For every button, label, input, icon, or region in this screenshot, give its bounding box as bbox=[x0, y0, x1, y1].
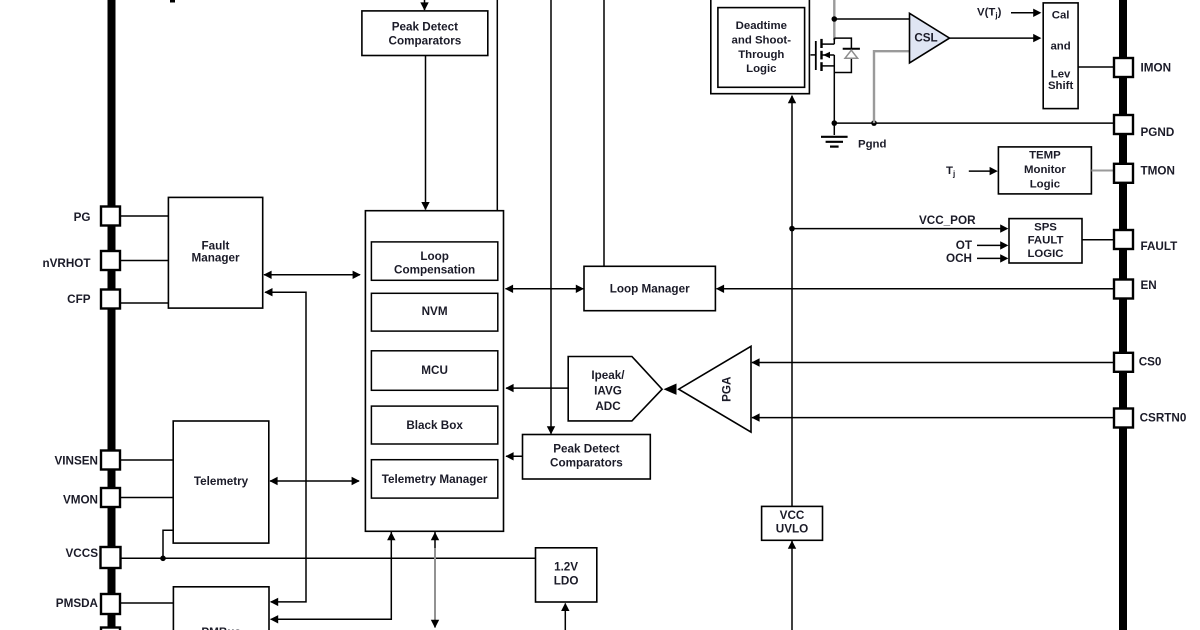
label CFP bbox=[67, 293, 91, 306]
block Ipeak IAVG ADC bbox=[568, 357, 662, 421]
wire CSL to Cal block bbox=[950, 34, 1042, 42]
amplifier PGA bbox=[679, 346, 751, 432]
wire gray sense to CSL bbox=[874, 51, 910, 123]
svg-text:OCH: OCH bbox=[946, 252, 972, 265]
block PMBus interface (cut off) bbox=[173, 587, 269, 630]
junction VCC_POR bbox=[789, 226, 795, 232]
pin CFP bbox=[101, 290, 120, 309]
wire vertical x604 from top to Loop Manager bbox=[603, 0, 605, 266]
pin VMON bbox=[101, 488, 120, 507]
block Peak Detect Comparators (top) bbox=[362, 11, 488, 56]
label PMSDA bbox=[56, 597, 99, 610]
svg-text:Pgnd: Pgnd bbox=[858, 139, 887, 151]
junction VCCS branch bbox=[160, 556, 166, 562]
svg-text:VCCS: VCCS bbox=[66, 547, 99, 560]
wire Telemetry to container (bidirectional) bbox=[269, 477, 359, 485]
label Pgnd bbox=[858, 139, 887, 151]
left chip boundary bus bbox=[108, 0, 116, 630]
junction sense-Pgnd bbox=[871, 120, 877, 126]
pin VCCS bbox=[101, 547, 121, 568]
wire PMSDA bbox=[116, 602, 174, 604]
svg-text:Telemetry Manager: Telemetry Manager bbox=[382, 473, 488, 486]
pin PGND bbox=[1114, 115, 1133, 134]
svg-text:Through: Through bbox=[738, 49, 784, 61]
svg-text:VCC_POR: VCC_POR bbox=[919, 214, 976, 227]
label nVRHOT bbox=[42, 257, 91, 270]
label VMON bbox=[63, 494, 98, 507]
cut-off mark top left bbox=[170, 0, 175, 3]
svg-text:FAULT: FAULT bbox=[1141, 240, 1179, 253]
label V(Tj) bbox=[977, 7, 1002, 20]
block 1.2V LDO bbox=[536, 548, 597, 602]
wire VCCS branch to Telemetry bbox=[163, 530, 173, 558]
svg-text:nVRHOT: nVRHOT bbox=[42, 257, 91, 270]
pin TMON bbox=[1114, 164, 1133, 183]
pin IMON bbox=[1114, 58, 1133, 77]
label OT bbox=[956, 239, 973, 252]
label TMON bbox=[1141, 165, 1175, 178]
label EN bbox=[1141, 279, 1157, 292]
pin PMSDA bbox=[101, 594, 120, 614]
wire Peak Detect to MCU container bbox=[421, 56, 429, 211]
block Cal and Lev Shift bbox=[1043, 3, 1078, 109]
wire Cal block to IMON bbox=[1078, 66, 1114, 68]
wire PG bbox=[116, 215, 169, 217]
block MCU container bbox=[365, 211, 503, 532]
block SPS FAULT LOGIC bbox=[1009, 219, 1082, 263]
wire container to Peak Detect Comparators 2 bbox=[505, 452, 522, 460]
wire vertical x497 from top to container bbox=[496, 0, 498, 211]
svg-text:ADC: ADC bbox=[595, 400, 621, 413]
wire gray VIN to drain bbox=[833, 0, 835, 40]
wire into 1.2V LDO from bottom bbox=[561, 603, 569, 630]
svg-text:VINSEN: VINSEN bbox=[54, 454, 98, 467]
svg-text:LDO: LDO bbox=[554, 575, 579, 588]
block Loop Compensation bbox=[371, 242, 497, 280]
block NVM bbox=[371, 293, 497, 331]
svg-text:Black Box: Black Box bbox=[406, 419, 463, 432]
block Peak Detect Comparators 2 bbox=[523, 435, 651, 480]
amplifier CSL bbox=[910, 13, 950, 63]
wire container bottom to PMBus bbox=[270, 532, 396, 624]
wire Tj to TEMP Monitor bbox=[969, 167, 998, 175]
block Telemetry Manager bbox=[371, 460, 497, 498]
junction drain node bbox=[832, 16, 838, 22]
svg-text:Comparators: Comparators bbox=[550, 456, 623, 469]
label VINSEN bbox=[54, 454, 98, 467]
wire V(Tj) to Cal block bbox=[1011, 9, 1041, 17]
svg-text:PMSDA: PMSDA bbox=[56, 597, 99, 610]
svg-text:and: and bbox=[1050, 41, 1070, 53]
svg-text:LOGIC: LOGIC bbox=[1027, 248, 1063, 260]
diode body diode bbox=[843, 49, 860, 59]
label PG bbox=[74, 211, 91, 224]
wire ADC to MCU bbox=[505, 384, 568, 392]
svg-text:V(Tj): V(Tj) bbox=[977, 7, 1002, 20]
svg-text:CS0: CS0 bbox=[1139, 356, 1162, 369]
wire CSRTN0 pin to PGA bbox=[751, 413, 1114, 421]
svg-text:Monitor: Monitor bbox=[1024, 164, 1066, 176]
wire EN pin to Loop Manager bbox=[716, 285, 1114, 293]
svg-text:SPS: SPS bbox=[1034, 221, 1057, 233]
svg-text:PGA: PGA bbox=[721, 376, 734, 402]
svg-text:PG: PG bbox=[74, 211, 91, 224]
svg-text:Comparators: Comparators bbox=[389, 34, 462, 47]
wire Pgnd rail to PGND pin bbox=[834, 122, 1114, 124]
pin CSRTN0 bbox=[1114, 409, 1133, 428]
label IMON bbox=[1141, 62, 1172, 75]
pin PG bbox=[101, 207, 120, 226]
svg-text:VMON: VMON bbox=[63, 494, 98, 507]
block VCC UVLO bbox=[762, 506, 823, 540]
block TEMP Monitor Logic bbox=[998, 147, 1091, 194]
svg-text:and Shoot-: and Shoot- bbox=[732, 35, 792, 47]
wire TEMP Monitor to TMON gray bbox=[1091, 170, 1114, 172]
svg-text:Deadtime: Deadtime bbox=[736, 20, 787, 32]
svg-text:Cal: Cal bbox=[1052, 10, 1070, 22]
label Tj bbox=[946, 165, 955, 178]
svg-text:PGND: PGND bbox=[1141, 126, 1175, 139]
svg-text:Logic: Logic bbox=[1030, 179, 1060, 191]
svg-text:PMBus: PMBus bbox=[201, 626, 241, 630]
svg-text:Lev: Lev bbox=[1051, 68, 1071, 80]
svg-text:TEMP: TEMP bbox=[1029, 149, 1061, 161]
pin FAULT bbox=[1114, 230, 1133, 249]
wire VCC_POR to SPS bbox=[792, 224, 1008, 232]
wire OT to SPS bbox=[977, 241, 1008, 249]
wire CS0 pin to PGA bbox=[751, 358, 1114, 366]
block Loop Manager bbox=[584, 266, 715, 310]
block Telemetry bbox=[173, 421, 269, 543]
svg-text:Manager: Manager bbox=[191, 252, 240, 265]
ground Pgnd symbol bbox=[821, 123, 848, 147]
label FAULT bbox=[1141, 240, 1179, 253]
label VCC_POR bbox=[919, 214, 976, 227]
label CSRTN0 bbox=[1140, 411, 1187, 424]
wire top arrow into Peak Detect Comparators bbox=[420, 0, 428, 11]
label VCCS bbox=[66, 547, 99, 560]
pin EN bbox=[1114, 280, 1133, 299]
wire VCCS to 1.2V LDO bbox=[116, 557, 536, 559]
svg-text:IMON: IMON bbox=[1141, 62, 1172, 75]
block Deadtime cut box above bbox=[723, 0, 796, 3]
svg-text:Tj: Tj bbox=[946, 165, 955, 178]
block Fault Manager bbox=[168, 197, 262, 308]
wire container to Loop Manager (bidirectional) bbox=[505, 285, 584, 293]
label CS0 bbox=[1139, 356, 1162, 369]
block Black Box bbox=[371, 406, 497, 444]
pin nVRHOT bbox=[101, 251, 120, 270]
block Deadtime and Shoot-Through Logic bbox=[718, 8, 805, 88]
wire SPS to FAULT pin bbox=[1082, 239, 1114, 241]
wire Fault Manager to PMBus bbox=[264, 288, 306, 606]
transistor power MOSFET bbox=[811, 38, 852, 123]
right chip boundary bus bbox=[1119, 0, 1127, 630]
wire VCC into UVLO from bottom bbox=[788, 541, 796, 630]
svg-text:Peak Detect: Peak Detect bbox=[553, 443, 619, 456]
wire CFP bbox=[116, 302, 169, 304]
svg-text:Loop Manager: Loop Manager bbox=[610, 283, 690, 296]
svg-text:OT: OT bbox=[956, 239, 973, 252]
label PGND bbox=[1141, 126, 1175, 139]
svg-text:UVLO: UVLO bbox=[776, 522, 808, 535]
block Deadtime outer box bbox=[711, 0, 810, 94]
svg-text:Shift: Shift bbox=[1048, 80, 1074, 92]
wire VCC UVLO up to Deadtime bbox=[788, 95, 796, 506]
svg-text:TMON: TMON bbox=[1141, 165, 1175, 178]
svg-text:NVM: NVM bbox=[422, 305, 448, 318]
pin VINSEN bbox=[101, 451, 120, 470]
svg-text:CFP: CFP bbox=[67, 293, 91, 306]
wire VINSEN bbox=[116, 459, 174, 461]
wire container bottom bidirectional gray bbox=[431, 532, 439, 628]
pin CS0 bbox=[1114, 353, 1133, 372]
svg-text:1.2V: 1.2V bbox=[554, 561, 578, 574]
svg-text:FAULT: FAULT bbox=[1028, 235, 1064, 247]
wire PGA to ADC bbox=[664, 384, 677, 395]
svg-text:CSRTN0: CSRTN0 bbox=[1140, 411, 1187, 424]
wire OCH to SPS bbox=[977, 254, 1008, 262]
svg-text:CSL: CSL bbox=[914, 32, 937, 45]
wire drain node to CSL bbox=[834, 18, 909, 20]
svg-text:Compensation: Compensation bbox=[394, 263, 475, 276]
svg-text:Loop: Loop bbox=[420, 250, 449, 263]
wire Fault Manager to container (bidirectional) bbox=[263, 271, 360, 279]
block MCU bbox=[371, 351, 497, 391]
svg-text:Logic: Logic bbox=[746, 63, 776, 75]
svg-text:Telemetry: Telemetry bbox=[194, 475, 249, 488]
wire vertical x551 from top to Peak Detect Comparators 2 bbox=[547, 0, 555, 434]
label OCH bbox=[946, 252, 972, 265]
svg-text:MCU: MCU bbox=[421, 364, 448, 377]
svg-text:EN: EN bbox=[1141, 279, 1157, 292]
svg-text:VCC: VCC bbox=[780, 509, 805, 522]
svg-text:Ipeak/: Ipeak/ bbox=[591, 369, 625, 382]
pin PMSCL partial bbox=[101, 628, 120, 630]
svg-text:Peak Detect: Peak Detect bbox=[392, 21, 458, 34]
svg-text:IAVG: IAVG bbox=[594, 384, 622, 397]
junction source-Pgnd bbox=[832, 120, 838, 126]
wire nVRHOT bbox=[116, 260, 169, 262]
wire VMON bbox=[116, 497, 174, 499]
